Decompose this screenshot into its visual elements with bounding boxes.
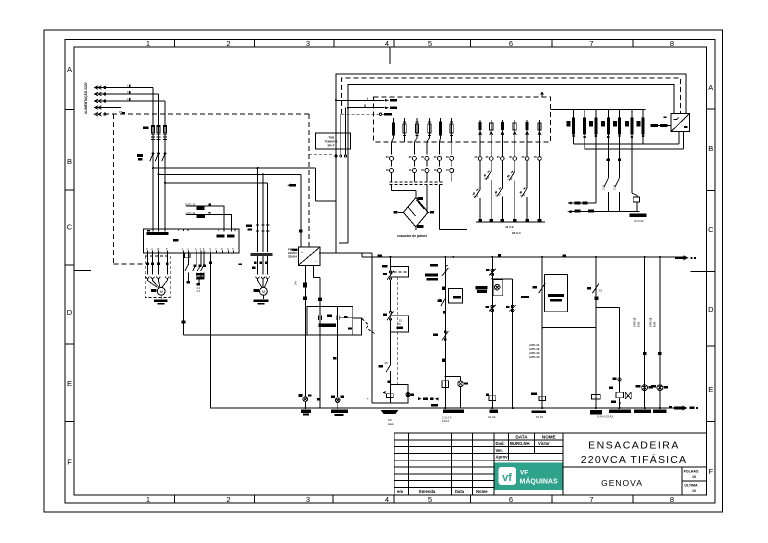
junction dots on bus [377, 254, 382, 256]
wire phase feed right low [165, 182, 268, 184]
svg-text:6: 6 [509, 495, 513, 504]
ground PE below H2 [331, 409, 348, 413]
terminal blocks left of U2 [651, 124, 659, 127]
disconnector Q1 fuse elements [151, 125, 167, 139]
svg-text:U: U [146, 248, 148, 251]
rung K2: drop from bus [491, 257, 493, 408]
inverter control drop 3 with contact [193, 253, 197, 279]
svg-text:≈≈≈: ≈≈≈ [388, 423, 394, 427]
svg-text:8: 8 [670, 495, 674, 504]
svg-text:ALIMENTAÇÃO 220V: ALIMENTAÇÃO 220V [83, 81, 88, 114]
coil K1M [442, 381, 449, 388]
chassis ground below Y1 [381, 410, 398, 414]
info table outline [494, 433, 563, 495]
branch to coil rung [596, 308, 620, 393]
svg-text:26: 26 [398, 322, 401, 326]
coil TR1 [539, 396, 546, 400]
info table texts DATA NOME [515, 434, 555, 439]
svg-text:2.3: 2.3 [197, 289, 201, 293]
fuse F2 elements [256, 225, 269, 231]
svg-text:0-24 0-23 A2: 0-24 0-23 A2 [597, 415, 613, 419]
contact circles on rung2 [491, 269, 493, 271]
ventilador relay box [632, 193, 637, 197]
breaker F12 [403, 124, 406, 133]
aux box 2 right of S2 [391, 316, 409, 332]
main control bus L+ [362, 256, 680, 258]
motor M1 label [151, 289, 157, 292]
svg-text:15 16: 15 16 [536, 415, 543, 419]
wire drop to fonte left pin [300, 174, 302, 247]
TM1 tomada box [316, 133, 351, 149]
0V bottom rail [211, 407, 679, 409]
svg-text:41 0-2: 41 0-2 [505, 225, 514, 229]
collector wire 1 [574, 143, 679, 145]
motor M1 dashed enclosure [145, 256, 170, 297]
contact on rung4 [593, 284, 599, 294]
rectifier inner hatch [408, 200, 424, 216]
frame: row letters left [67, 65, 73, 467]
inverter long drop to 0V rail [210, 253, 212, 408]
inverter top pin ticks [153, 229, 235, 232]
svg-text:A1 A2: A1 A2 [488, 415, 496, 419]
VF logo wordmark [520, 470, 558, 486]
enclosure inner conductor [348, 85, 674, 244]
svg-text:A: A [67, 65, 72, 74]
emergency stop rung S2 [390, 257, 392, 271]
wire phase feed right top [153, 167, 316, 169]
revision table outline [394, 433, 494, 495]
small contact marks [618, 378, 621, 381]
ground below H1 [301, 409, 311, 412]
svg-text:1: 1 [146, 495, 150, 504]
feed jog to main bus [361, 253, 363, 257]
svg-text:15: 15 [599, 289, 602, 293]
wire number labels on input lines [119, 84, 131, 115]
rectifier side leads [398, 211, 430, 213]
svg-text:3P+T: 3P+T [327, 144, 334, 148]
solenoid Y1 box [391, 384, 408, 403]
svg-text:Victor: Victor [538, 441, 550, 446]
control drops 3-4 join [196, 253, 204, 283]
wire fonte to terminal bar [313, 265, 320, 408]
PE caption rows [388, 418, 394, 427]
svg-text:5: 5 [428, 495, 432, 504]
inverter bottom pin labels [146, 248, 234, 251]
rung TR1: drop from bus [541, 257, 543, 408]
motor M2 label [254, 289, 260, 292]
lamp H3 [642, 385, 648, 391]
svg-text:F: F [67, 458, 72, 467]
fuse F4 mark on drop [299, 230, 303, 233]
svg-text:FOLHAS: FOLHAS [684, 470, 699, 474]
rectifier bottom stub [415, 227, 417, 230]
switch on rung [440, 298, 446, 306]
contact on rung3 [539, 283, 545, 293]
frame: row letters right [708, 83, 714, 476]
title box outline [563, 433, 706, 495]
ground below M2 [262, 295, 264, 299]
wire feed into distribution box 3 [342, 113, 385, 115]
svg-text:1-PC-16: 1-PC-16 [650, 317, 653, 327]
collector wire 2 [585, 148, 684, 150]
contact marks in relay block [327, 314, 332, 317]
contact mark [442, 287, 445, 290]
branch to pilot [445, 377, 460, 382]
motor M2 coil loops [256, 276, 270, 287]
labels below rail rung3 [532, 410, 547, 413]
svg-text:F: F [709, 467, 714, 476]
svg-text:Aprov: Aprov [496, 455, 509, 460]
svg-text:25: 25 [385, 361, 389, 365]
circle side labels [475, 155, 538, 159]
wire phase feed right mid [159, 173, 301, 175]
inverter bottom pin ticks [147, 251, 233, 254]
feed arrows and labels [385, 99, 389, 102]
junction marks on inputs [129, 85, 131, 87]
svg-text:C: C [708, 225, 714, 234]
motor M1 leads [147, 253, 167, 274]
bowtie contact right of coil [625, 392, 631, 399]
GENOVA cell [681, 467, 683, 495]
svg-text:1-PC-15: 1-PC-15 [634, 317, 637, 327]
svg-text:2-S2: 2-S2 [614, 184, 617, 190]
frequency inverter U1 box [144, 229, 239, 253]
svg-text:25: 25 [399, 319, 402, 323]
frame: centerfold mark top [389, 47, 391, 64]
bottom bar terminal blobs [478, 219, 482, 222]
svg-text:em: em [397, 489, 403, 494]
svg-text:E: E [708, 385, 713, 394]
wire drop feed to enclosure [316, 168, 336, 253]
svg-text:3: 3 [306, 39, 310, 48]
wire L2 phase input [96, 93, 159, 95]
wire U2 output 1 [678, 132, 680, 145]
switch labels [473, 173, 526, 197]
PRESSOST label [425, 274, 438, 277]
wire L1 phase input [96, 87, 153, 89]
breaker F15 (bold) [439, 122, 442, 136]
coil K3 [616, 392, 624, 398]
small tick [443, 311, 446, 314]
heavy terminal labels under right rail [590, 410, 602, 414]
svg-text:exaustor de painel: exaustor de painel [397, 234, 427, 238]
revision table columns [409, 433, 473, 495]
ventilador bottom bar [571, 211, 640, 213]
distribution dashed box [374, 97, 551, 142]
breaker bank elements [572, 117, 575, 134]
svg-text:10: 10 [692, 475, 696, 479]
breaker group inside distribution box (left) [392, 118, 452, 142]
info table grid [494, 433, 563, 460]
wire stub at enclosure inner bottom [339, 242, 348, 244]
svg-text:D: D [708, 305, 714, 314]
breaker bank drops [574, 109, 644, 117]
FOLHA text [684, 470, 699, 494]
svg-text:220VCA TIFÁSICA: 220VCA TIFÁSICA [581, 453, 688, 466]
bridge rectifier feed right [427, 185, 467, 230]
wire N input (short) [96, 107, 121, 109]
svg-text:D: D [67, 308, 73, 317]
title divider [563, 466, 706, 468]
terminal bar X1 (bold) [318, 324, 336, 327]
device A1 box on wire [353, 318, 362, 335]
dashed link under TM1 [309, 153, 334, 155]
wire phase bus vertical L2 [158, 94, 160, 229]
lamp rail bottom link [372, 402, 390, 404]
svg-text:DATA: DATA [515, 434, 528, 439]
junction blob [595, 296, 599, 299]
TM1 pins [341, 108, 346, 155]
signal wire B to inverter [186, 214, 232, 229]
svg-text:6: 6 [509, 39, 513, 48]
rung K1M: drop from bus [444, 257, 446, 408]
svg-text:3: 3 [306, 495, 310, 504]
frame: outer border [44, 30, 723, 512]
svg-text:4: 4 [385, 495, 389, 504]
svg-text:0-23: 0-23 [638, 321, 641, 327]
contact pair mid [390, 311, 392, 313]
svg-text:≈≈: ≈≈ [388, 418, 392, 422]
contact labels [194, 264, 197, 266]
svg-text:10: 10 [692, 489, 696, 493]
power supply FONTE 24V box [298, 247, 320, 265]
next rung tag [521, 296, 529, 298]
rung K3: drop from bus [595, 257, 597, 408]
wire feed into distribution box 2 [348, 107, 385, 109]
wire continuation arrow near fonte [291, 248, 294, 251]
ventilador caption [630, 214, 647, 218]
tick above U2 [664, 117, 667, 118]
title block [394, 433, 706, 495]
motor M1 overload marks [146, 263, 149, 266]
svg-text:NOME: NOME [542, 434, 556, 439]
breaker bank lower connections [573, 134, 644, 203]
wire phase bus vertical L1 [152, 88, 154, 230]
revision table footer labels [397, 489, 488, 494]
contact on rung 512 [511, 305, 514, 308]
pilot lamp on branch [458, 381, 464, 387]
svg-text:Emenda: Emenda [419, 489, 436, 494]
frame: inner drawing border [74, 47, 706, 495]
breaker F13 [415, 124, 418, 133]
ground below M1 [160, 295, 162, 299]
svg-text:VF: VF [520, 470, 528, 477]
dashed mechanical link [362, 319, 375, 334]
svg-text:B: B [708, 144, 713, 153]
svg-text:−: − [315, 260, 317, 264]
lamp H2 drop [337, 307, 339, 397]
breaker F16 [450, 124, 453, 133]
svg-text:Dad.: Dad. [496, 441, 505, 446]
svg-text:24+: 24+ [294, 280, 298, 285]
svg-text:Ver.: Ver. [496, 448, 503, 453]
svg-text:Data: Data [455, 489, 465, 494]
svg-text:vf: vf [502, 472, 512, 484]
enclosure dashed conductor [342, 78, 681, 114]
coil K2 [489, 396, 496, 401]
bus exit arrow [675, 257, 684, 260]
breaker F1 contacts [150, 153, 166, 162]
wire tag on bus [498, 254, 501, 256]
svg-text:2: 2 [226, 39, 230, 48]
svg-text:23 0-4: 23 0-4 [512, 231, 521, 235]
S2 lower switch [386, 365, 390, 372]
lamp H1 [303, 397, 308, 402]
dashed PE drop left [114, 114, 144, 264]
relay K box right of S2 [391, 266, 409, 277]
lamp rail drop from feed [371, 253, 373, 403]
svg-text:13/14: 13/14 [442, 419, 449, 423]
frame: column numbers top [146, 39, 674, 48]
wire PE dashed control feed [96, 113, 309, 115]
24V feed rail [319, 252, 372, 254]
power supply unit U2 (diagonal box) [671, 114, 690, 132]
svg-text:8: 8 [670, 39, 674, 48]
fuse F2 label [246, 225, 252, 228]
junction dots on feed [152, 167, 154, 169]
dashed PE riser to fonte [308, 114, 310, 247]
svg-text:2: 2 [226, 495, 230, 504]
inverter U1 label [173, 239, 179, 242]
ventilador link wire 1 [571, 202, 596, 204]
wire phase bus vertical L3 [164, 101, 166, 229]
svg-text:GENOVA: GENOVA [601, 478, 643, 488]
wire M2 drop 1 [257, 168, 259, 252]
timer TR1 box [545, 275, 568, 312]
svg-text:2.2: 2.2 [197, 286, 201, 290]
lamp H1 drop from fonte [304, 265, 306, 282]
VF logo mark white rounded square [499, 467, 517, 485]
overload relay marks M2 [254, 262, 257, 265]
wire continuation arrow right of Y1 [418, 397, 421, 400]
svg-text:M: M [160, 290, 163, 294]
wire M2 drop 3 [267, 183, 269, 252]
pin jumper loop below inverter [185, 253, 190, 258]
inverter control drop 2 with contact [185, 253, 189, 281]
inverter control drop 4 with contact [197, 253, 201, 279]
tiny caption block [529, 343, 540, 359]
FOLHA cell divider [682, 480, 707, 482]
bridge rectifier diamond [404, 198, 429, 227]
signal wire A to inverter [186, 206, 224, 229]
frame: row tick marks left [65, 109, 91, 421]
svg-text:7: 7 [589, 495, 593, 504]
wire U2 output 2 [682, 132, 684, 150]
labels below rail rung1 [431, 404, 438, 407]
svg-text:5: 5 [428, 39, 432, 48]
inverter top pin labels [147, 232, 169, 235]
lamp H4 [657, 385, 663, 391]
inverter control drop 1 [182, 253, 184, 321]
heavy bus from distribution to breakers [551, 108, 646, 110]
terminal mark rung H3 [643, 352, 646, 355]
svg-text:220/24: 220/24 [288, 255, 297, 259]
terminal mark rung H4 [658, 352, 661, 355]
device box on rung2 [493, 280, 503, 296]
contact K1 on rung [444, 331, 446, 333]
svg-text:BURG.NH: BURG.NH [510, 441, 530, 446]
ventilador sub-circuit switches [604, 178, 620, 212]
wire continuation arrow mark [288, 184, 292, 188]
svg-text:1-PC-14: 1-PC-14 [185, 211, 196, 215]
svg-text:ÚLTIMA: ÚLTIMA [684, 483, 698, 488]
breaker F11 (bold) [392, 123, 395, 136]
limit switch group columns [478, 120, 541, 160]
FONTE 24V label [288, 248, 298, 259]
bridge rectifier feed left [392, 185, 416, 198]
VF MAQUINAS logo block [495, 463, 563, 491]
terminal arrows on input lines [94, 86, 106, 116]
breaker label blobs [567, 121, 571, 127]
svg-text:4: 4 [385, 39, 389, 48]
terminal mark [442, 359, 446, 362]
terminal strip X2 hatched bar [251, 253, 273, 256]
wire feed into distribution box 1 [336, 99, 385, 101]
svg-text:1: 1 [146, 39, 150, 48]
wire M2 leads below strip [258, 256, 268, 274]
limit switch bottom bar [476, 221, 545, 223]
svg-text:MÁQUINAS: MÁQUINAS [520, 477, 558, 486]
svg-text:2-S1: 2-S1 [602, 184, 605, 190]
branch to rung 512 [493, 279, 513, 408]
frame: column tick marks top [175, 39, 634, 47]
pin circles [491, 305, 494, 308]
lamp H2 [335, 398, 340, 403]
connector pairs below distribution box left group [390, 142, 454, 182]
svg-text:Nome: Nome [476, 489, 488, 494]
motor M1 circle [157, 287, 165, 295]
PE dashed bus rows [390, 182, 445, 185]
limit switch verticals with switches [473, 160, 540, 219]
svg-text:S=0 23: S=0 23 [634, 219, 644, 223]
connector labels [386, 155, 450, 172]
pilot on solenoid box right [406, 393, 410, 397]
labels below rail rung2 [490, 409, 498, 413]
contact on rung top [442, 265, 449, 276]
device box right of rung [449, 289, 463, 303]
svg-text:M: M [262, 290, 265, 294]
tick on distribution box top [541, 93, 544, 97]
frame: column numbers bottom [146, 495, 674, 504]
bar caption labels [505, 225, 521, 235]
limit switch fuse marks inside box [479, 122, 482, 130]
link bar rung3 to rung5 [542, 327, 596, 329]
wire tag [430, 264, 438, 267]
breaker F1 label [137, 154, 143, 157]
svg-text:E: E [67, 379, 72, 388]
svg-text:ENSACADEIRA: ENSACADEIRA [588, 440, 680, 452]
coil on rung K4 near rail [592, 395, 601, 399]
enclosure outer conductor [336, 74, 686, 201]
rung H4: drop from bus [659, 257, 661, 408]
dashed rung from relay box [397, 277, 399, 385]
svg-text:4-PC-14: 4-PC-14 [529, 355, 540, 359]
frame: label band rect [65, 39, 715, 503]
motor M2 circle [260, 287, 268, 295]
svg-text:8-PC-13: 8-PC-13 [185, 203, 196, 207]
junction dots on 0V rail [444, 407, 446, 409]
frame: column tick marks bottom [175, 495, 634, 503]
motor M1 coil loops [146, 276, 170, 287]
revision table rows [394, 440, 494, 488]
svg-text:B: B [67, 157, 72, 166]
breaker F14 [428, 124, 431, 133]
svg-text:C: C [67, 223, 73, 232]
rung H3: drop from bus [644, 257, 646, 408]
disconnector Q1 label [143, 126, 149, 129]
wire M2 drop 2 [262, 174, 264, 252]
svg-text:A: A [708, 83, 713, 92]
